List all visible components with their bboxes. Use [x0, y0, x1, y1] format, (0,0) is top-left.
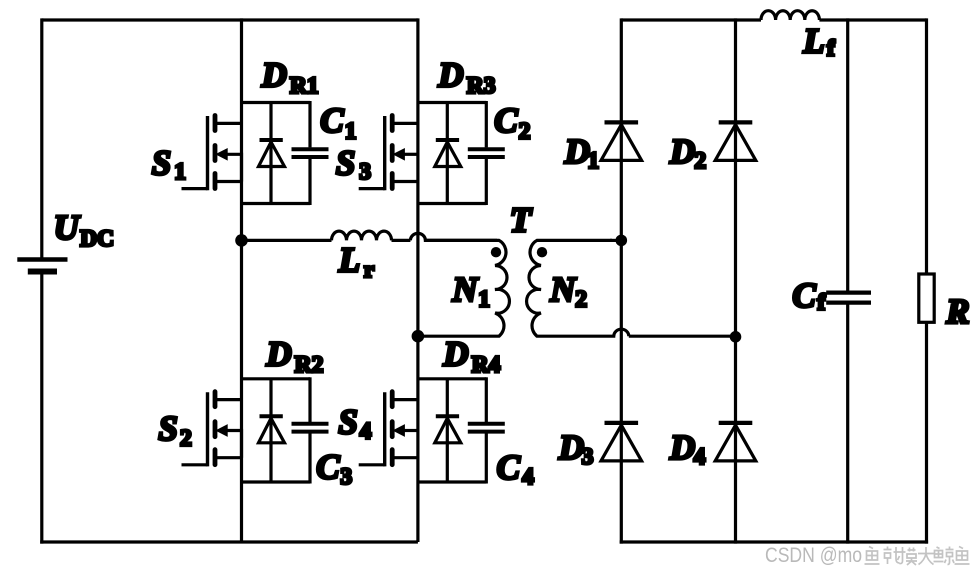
wire: secondary top rail right of L_f	[819, 18, 926, 21]
wire: left vertical upper (source branch)	[40, 18, 43, 258]
capacitor C1	[292, 149, 329, 157]
svg-text:C: C	[497, 448, 521, 487]
svg-text:T: T	[510, 201, 533, 240]
svg-text:2: 2	[519, 118, 531, 144]
transformer T secondary winding N2	[527, 240, 616, 336]
cell box D_R1/C1	[242, 101, 311, 205]
label C2	[494, 101, 530, 145]
svg-text:S: S	[338, 403, 357, 442]
svg-text:N: N	[451, 270, 479, 309]
wire: bridge leg 2 (S3/S4)	[416, 18, 419, 542]
diode D_R3	[435, 103, 461, 204]
svg-text:2: 2	[694, 148, 706, 174]
wire: R branch lower	[925, 322, 928, 543]
junction dot: N2 bottom at D2/D4 branch	[730, 331, 742, 343]
diode D1	[601, 122, 642, 160]
diode D4	[715, 423, 756, 461]
transistor Q S1 (MOSFET)	[182, 116, 242, 191]
wire: rectifier branch D1/D3	[620, 18, 623, 543]
transformer primary polarity dot	[491, 247, 501, 257]
svg-text:4: 4	[522, 464, 534, 490]
wire: N2 top to rectifier branch 1	[610, 239, 621, 242]
diode D2	[715, 122, 756, 160]
svg-text:S: S	[158, 409, 177, 448]
svg-text:3: 3	[359, 159, 371, 185]
diode D_R1	[259, 103, 285, 204]
label N1	[451, 270, 490, 313]
watermark glyph 就	[884, 547, 900, 565]
label U_DC	[54, 208, 114, 252]
diode D3	[601, 423, 642, 461]
svg-text:DC: DC	[80, 226, 114, 252]
label D_R4	[442, 335, 500, 378]
svg-text:C: C	[494, 101, 518, 140]
watermark glyph 鱼	[865, 547, 880, 565]
svg-text:4: 4	[694, 444, 706, 470]
label D1	[564, 132, 600, 174]
svg-text:N: N	[549, 270, 577, 309]
svg-text:R3: R3	[467, 73, 496, 99]
svg-text:D: D	[558, 428, 584, 467]
svg-text:C: C	[792, 276, 816, 315]
battery U_DC short plate	[28, 269, 57, 275]
wire: L_r to hop	[392, 239, 411, 242]
wire hop: N2 bottom over D1/D3 branch	[614, 329, 629, 336]
svg-text:1: 1	[478, 287, 490, 313]
label C3	[316, 448, 352, 491]
label C1	[320, 101, 356, 145]
label D_R3	[437, 56, 495, 100]
transistor Q S4 (MOSFET)	[359, 392, 418, 467]
wire: C_f branch upper	[846, 18, 849, 291]
svg-text:D: D	[261, 55, 287, 94]
svg-text:f: f	[827, 36, 836, 62]
svg-text:2: 2	[575, 286, 587, 312]
wire: N2 bottom to D2/D4 branch	[629, 335, 736, 338]
label D3	[558, 428, 594, 470]
transistor Q S3 (MOSFET)	[359, 116, 418, 191]
svg-text:1: 1	[174, 159, 186, 185]
svg-text:R: R	[945, 292, 969, 331]
wire: bridge leg 1 (S1/S2)	[240, 18, 243, 542]
label L_r	[338, 241, 375, 283]
svg-text:3: 3	[340, 464, 352, 490]
capacitor C_f	[826, 293, 871, 303]
svg-text:D: D	[669, 428, 695, 467]
wire: node A to L_r	[242, 239, 332, 242]
svg-text:R1: R1	[290, 73, 319, 99]
svg-text:3: 3	[582, 444, 594, 470]
svg-text:D: D	[669, 132, 695, 171]
label L_f	[802, 21, 836, 61]
battery U_DC long plate	[17, 257, 67, 262]
watermark glyph 鲸	[934, 547, 955, 565]
junction dot: N1 bottom to leg 2	[412, 330, 425, 343]
label D_R2	[265, 335, 323, 378]
svg-text:f: f	[817, 290, 826, 316]
wire hop over leg 2	[410, 233, 425, 240]
svg-text:C: C	[320, 101, 344, 140]
wire: secondary bottom rail	[620, 540, 928, 543]
transformer secondary polarity dot	[537, 247, 547, 257]
svg-text:R2: R2	[295, 352, 324, 378]
svg-text:C: C	[316, 448, 340, 487]
label D4	[669, 428, 706, 470]
cell box D_R2/C3	[242, 377, 311, 483]
wire: primary bottom rail	[40, 540, 418, 543]
capacitor C3	[292, 424, 329, 432]
svg-text:2: 2	[180, 425, 192, 451]
label S1	[152, 144, 186, 186]
svg-text:1: 1	[587, 148, 599, 174]
watermark glyph 摸	[900, 547, 918, 565]
diode D_R2	[259, 379, 285, 482]
label S3	[336, 144, 371, 186]
label C_f	[792, 276, 826, 315]
wire: hop to transformer primary	[424, 239, 497, 242]
capacitor C4	[468, 424, 505, 432]
svg-text:S: S	[152, 144, 171, 183]
wire: secondary top rail left of L_f	[621, 18, 761, 21]
svg-text:r: r	[364, 257, 374, 283]
svg-text:L: L	[802, 21, 824, 60]
svg-text:D: D	[265, 335, 291, 374]
wire: C_f branch lower	[846, 304, 849, 543]
label S2	[158, 409, 191, 451]
svg-text:D: D	[564, 132, 590, 171]
wire: R branch upper	[925, 18, 928, 274]
label D_R1	[261, 55, 319, 98]
wire: rectifier branch D2/D4	[734, 18, 737, 543]
cell box D_R3/C2	[418, 101, 486, 205]
wire: primary top rail	[42, 18, 418, 21]
svg-text:R4: R4	[472, 352, 501, 378]
svg-text:L: L	[338, 241, 360, 280]
label N2	[549, 270, 587, 312]
inductor L_f	[761, 11, 819, 20]
transistor Q S2 (MOSFET)	[182, 392, 242, 467]
svg-text:D: D	[437, 56, 463, 95]
label S4	[338, 403, 371, 445]
label D2	[669, 132, 706, 174]
transformer T primary winding N1	[418, 240, 509, 336]
diode D_R4	[435, 379, 461, 482]
svg-text:S: S	[336, 144, 355, 183]
junction dot: N2 top at D1/D3 branch	[616, 235, 628, 247]
watermark glyph 大	[918, 547, 934, 565]
svg-text:U: U	[54, 208, 81, 247]
svg-text:1: 1	[345, 118, 357, 144]
wire: left vertical lower	[40, 272, 43, 544]
svg-text:CSDN @mo: CSDN @mo	[765, 544, 862, 567]
capacitor C2	[468, 149, 505, 157]
svg-text:D: D	[442, 335, 468, 374]
node A junction dot	[235, 234, 248, 247]
resistor R	[919, 274, 934, 322]
svg-text:4: 4	[360, 419, 372, 445]
cell box D_R4/C4	[418, 377, 486, 483]
watermark glyph 鱼 (second)	[955, 547, 970, 565]
label C4	[497, 448, 534, 490]
watermark	[765, 544, 862, 567]
inductor L_r	[332, 231, 392, 240]
